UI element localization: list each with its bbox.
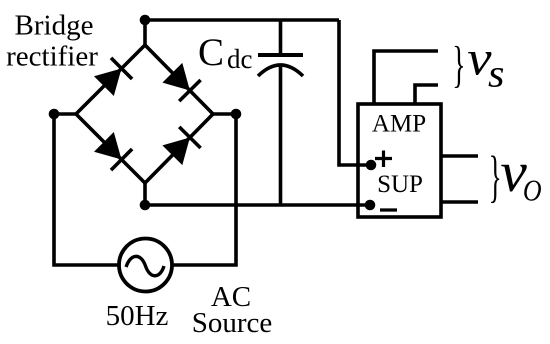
svg-text:Source: Source	[192, 307, 273, 339]
wire right node stub	[213, 112, 236, 116]
wire vo upper lead	[441, 154, 478, 158]
node bottom junction	[140, 200, 151, 211]
wire left node stub	[54, 112, 76, 116]
node left junction	[49, 109, 60, 120]
node top junction	[140, 15, 151, 26]
label vo brace	[489, 144, 502, 208]
node right junction	[231, 109, 242, 120]
label vs s subscript	[488, 52, 504, 95]
svg-text:rectifier: rectifier	[6, 41, 98, 73]
label vo O subscript	[523, 175, 542, 209]
node minus terminal	[365, 200, 376, 211]
svg-text:}: }	[489, 144, 502, 208]
wire vs lower tap	[415, 85, 438, 104]
svg-text:C: C	[198, 31, 224, 74]
wire bottom node stub	[143, 183, 147, 205]
pin + plus sign	[375, 151, 392, 168]
diode D2	[162, 63, 200, 101]
label vs v	[467, 32, 491, 86]
wire bottom rail	[145, 203, 370, 207]
svg-text:}: }	[452, 37, 465, 93]
wire vs upper tap	[374, 51, 438, 104]
AC source sine	[126, 256, 164, 275]
wire bridge edge bottom-right	[145, 114, 213, 183]
svg-text:Bridge: Bridge	[15, 10, 94, 42]
wire bridge edge top-right	[145, 45, 213, 114]
wire vo lower lead	[441, 200, 478, 204]
svg-text:SUP: SUP	[377, 171, 423, 198]
pin - minus sign	[380, 208, 397, 211]
svg-text:50Hz: 50Hz	[106, 300, 169, 332]
wire bridge edge left-bottom	[76, 114, 145, 183]
label vs brace	[452, 37, 465, 93]
wire top rail	[145, 18, 339, 22]
svg-text:s: s	[488, 52, 504, 95]
svg-text:O: O	[523, 175, 542, 209]
wire left rail	[54, 114, 118, 265]
diode D1	[94, 58, 132, 96]
capacitor Cdc	[258, 20, 303, 205]
svg-text:AMP: AMP	[372, 111, 426, 138]
label vo v	[500, 140, 527, 204]
node plus terminal	[366, 160, 377, 171]
diode D3	[94, 132, 132, 170]
wire bridge edge left-top	[76, 45, 145, 114]
wire right drop to + supply	[339, 20, 371, 165]
wire top node stub	[143, 20, 147, 45]
svg-text:dc: dc	[227, 44, 253, 74]
amp U1 box	[358, 104, 441, 217]
diode D4	[162, 127, 200, 165]
AC source V1	[119, 239, 172, 292]
wire right rail	[172, 114, 236, 265]
